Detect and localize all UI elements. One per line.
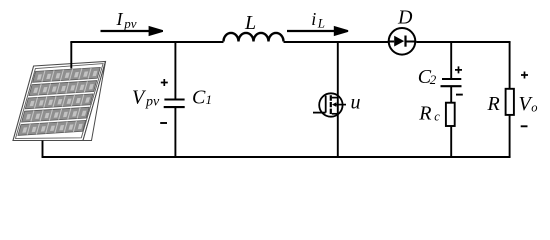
- svg-text:pv: pv: [145, 94, 160, 109]
- svg-text:L: L: [244, 12, 256, 34]
- wire: top segment corner to inductor: [70, 41, 223, 43]
- svg-text:i: i: [311, 9, 316, 29]
- plus sign C2: [455, 66, 462, 73]
- wire: panel bottom to bottom wire: [42, 141, 44, 158]
- wire: panel top to top-left corner: [70, 42, 72, 69]
- current arrow iL: [287, 26, 348, 36]
- svg-text:1: 1: [206, 92, 213, 107]
- MOSFET u: [313, 42, 346, 157]
- wire: diode to top-right corner: [416, 41, 510, 43]
- wire: bottom rail: [42, 156, 511, 158]
- plus sign Vo: [521, 72, 528, 79]
- svg-text:I: I: [116, 9, 124, 29]
- capacitor C1: [164, 42, 185, 157]
- svg-text:o: o: [531, 101, 537, 115]
- svg-text:C: C: [192, 87, 206, 109]
- minus sign C1: [160, 122, 167, 124]
- svg-text:2: 2: [430, 72, 437, 87]
- svg-text:L: L: [317, 16, 325, 31]
- diode D: [388, 28, 417, 55]
- solar panel PV: [13, 62, 106, 141]
- minus sign C2: [456, 94, 463, 96]
- svg-text:R: R: [487, 93, 500, 115]
- wire: inductor to diode: [284, 41, 389, 43]
- minus sign Vo: [521, 125, 528, 127]
- inductor L: [224, 33, 284, 42]
- resistor Rc: [446, 103, 455, 157]
- svg-text:pv: pv: [123, 16, 137, 31]
- svg-text:D: D: [397, 7, 413, 29]
- svg-text:R: R: [418, 103, 431, 125]
- resistor R load: [506, 42, 514, 157]
- svg-text:u: u: [351, 92, 361, 114]
- svg-text:c: c: [434, 109, 440, 123]
- current arrow Ipv: [101, 26, 164, 36]
- capacitor C2: [441, 42, 462, 103]
- plus sign C1: [161, 79, 168, 86]
